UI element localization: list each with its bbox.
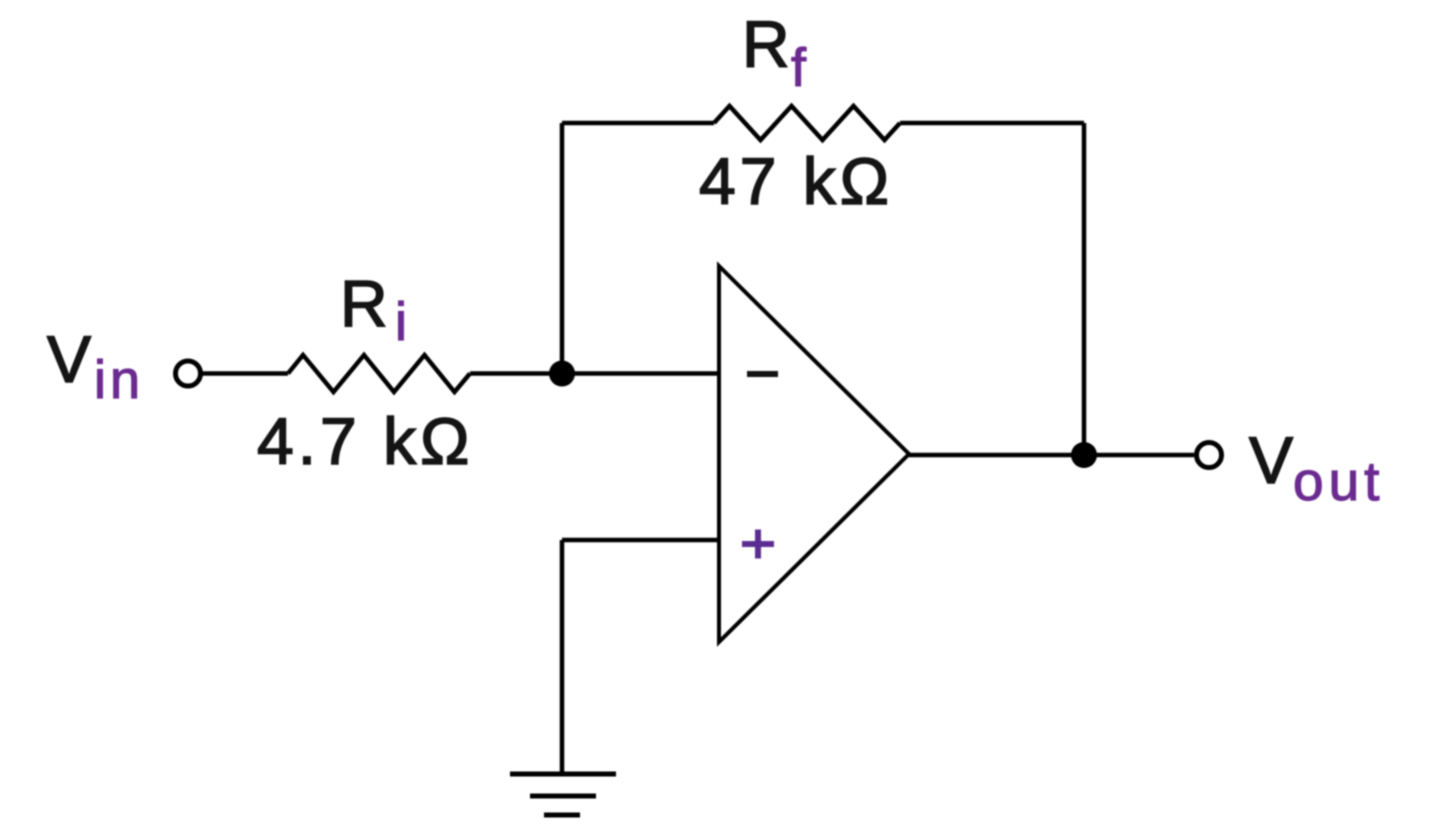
svg-text:out: out bbox=[1293, 450, 1384, 512]
wire: Ri to op-amp inverting input bbox=[470, 371, 719, 376]
node A: junction dot at inverting input bbox=[549, 361, 575, 387]
wire: Rf to right feedback vertical bbox=[900, 121, 1084, 126]
svg-text:in: in bbox=[94, 350, 144, 410]
output terminal Vout (open circle) bbox=[1197, 443, 1222, 468]
wire: top horizontal to resistor Rf bbox=[562, 121, 714, 126]
wire: left feedback vertical (node A up to top wire) bbox=[560, 123, 565, 374]
resistor Rf (zigzag) bbox=[714, 106, 900, 140]
svg-text:f: f bbox=[791, 38, 807, 98]
label Ri bbox=[340, 267, 407, 353]
label Vin bbox=[47, 322, 144, 410]
op-amp inverting pin (minus sign) bbox=[747, 371, 778, 377]
svg-text:V: V bbox=[47, 322, 95, 396]
svg-text:R: R bbox=[742, 7, 790, 81]
label Rf bbox=[742, 7, 807, 98]
wire: Vin terminal to resistor Ri bbox=[202, 371, 288, 376]
input terminal Vin (open circle) bbox=[176, 361, 201, 386]
svg-text:47 kΩ: 47 kΩ bbox=[699, 144, 893, 218]
op-amp U1 (triangle) bbox=[719, 266, 909, 642]
ground symbol bbox=[510, 774, 616, 815]
node B: junction dot at output bbox=[1071, 442, 1097, 468]
svg-text:R: R bbox=[340, 267, 388, 341]
resistor Ri (zigzag) bbox=[288, 355, 470, 392]
svg-text:V: V bbox=[1249, 423, 1297, 497]
svg-text:4.7 kΩ: 4.7 kΩ bbox=[257, 404, 473, 478]
label Vout bbox=[1249, 423, 1384, 512]
op-amp non-inverting pin (plus sign) bbox=[742, 530, 774, 559]
wire: non-inverting input down to ground bbox=[560, 540, 565, 774]
svg-text:i: i bbox=[395, 292, 407, 352]
wire: op-amp output to Vout terminal bbox=[909, 453, 1194, 458]
wire: right feedback vertical down to output node bbox=[1082, 123, 1087, 455]
wire: non-inverting input horizontal bbox=[562, 538, 719, 543]
